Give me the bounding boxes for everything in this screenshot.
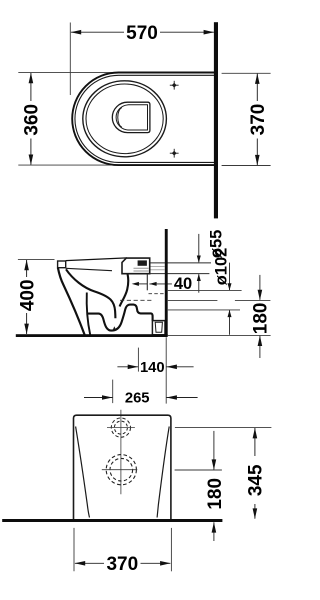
back of bowl line [120, 274, 129, 306]
water mark triangle in trap [113, 326, 116, 329]
toilet outline inner rim (plan) [75, 75, 214, 162]
svg-text:180: 180 [251, 303, 272, 335]
seat fixing cross bottom [170, 149, 179, 158]
lower hole dashed circles [106, 455, 136, 485]
svg-text:180: 180 [205, 478, 226, 510]
wall line (side view) [165, 229, 168, 336]
outlet centre line right of wall [168, 299, 218, 301]
svg-text:345: 345 [246, 464, 267, 496]
floor line thick (front) [2, 519, 222, 522]
40 reference line V1 [146, 274, 148, 290]
svg-text:370: 370 [248, 104, 269, 136]
svg-text:400: 400 [17, 279, 38, 311]
bowl oval inner [86, 84, 163, 154]
svg-text:265: 265 [125, 391, 150, 407]
valve gray lines [134, 267, 149, 269]
upper hole dashed circles [111, 418, 130, 437]
seat bottom line [66, 268, 112, 270]
outer front profile [58, 268, 85, 335]
flush valve block [122, 258, 150, 274]
water area D-shape inner [116, 105, 147, 130]
dimension 180 (side) [259, 275, 261, 300]
bowl inner sweep with weir tongue [66, 269, 115, 318]
dimension 180 (front) [175, 469, 222, 471]
inlet spigot top line [150, 262, 211, 264]
400 top extension line [18, 259, 55, 261]
seat top line [66, 258, 127, 261]
spigot gray mid lines [151, 265, 165, 267]
bowl oval outer [83, 81, 167, 157]
front outline [74, 415, 171, 521]
dimension 345 [175, 427, 272, 429]
extension line left of 570 dim [69, 23, 71, 96]
drain box at wall foot [152, 321, 165, 335]
dimension 265 [112, 380, 114, 404]
floor line thick (side) [16, 334, 168, 337]
seat fixing cross top [170, 81, 179, 90]
left taper line [76, 427, 90, 518]
bottom tangent extension line (360 bottom) [18, 164, 120, 166]
dimension 570 [71, 31, 214, 33]
svg-text:ø102: ø102 [213, 248, 231, 286]
inlet spigot bottom line [150, 273, 210, 275]
hidden outlet top dashed line [149, 293, 165, 295]
valve black detail [138, 260, 147, 265]
svg-text:370: 370 [106, 554, 138, 575]
water area D-shape outer [112, 102, 150, 132]
foot inner line [87, 293, 91, 335]
svg-text:570: 570 [126, 23, 158, 44]
dimension 140 [137, 348, 139, 372]
dimension 400 [26, 260, 28, 334]
outlet centre dashed line (in bowl) [120, 299, 153, 301]
right taper line [157, 427, 169, 518]
dimension 360 [30, 73, 32, 165]
40 dim arrows [139, 283, 148, 285]
dimension ø55 [198, 234, 200, 262]
dimension 370 (front bottom) [73, 528, 75, 571]
trap outer U and outlet channel to drain [88, 305, 153, 331]
svg-text:360: 360 [22, 104, 43, 136]
toilet outline outer (plan) [72, 73, 214, 166]
floor thin extension right [168, 334, 271, 336]
centre line through holes [120, 410, 122, 495]
dimension 370 (plan right) [222, 72, 271, 74]
seat bumper square [58, 261, 66, 268]
inner arc detail [118, 108, 122, 127]
svg-text:140: 140 [140, 360, 165, 376]
top tangent extension line (360 top) [18, 72, 120, 74]
wall line (plan) [214, 22, 218, 218]
